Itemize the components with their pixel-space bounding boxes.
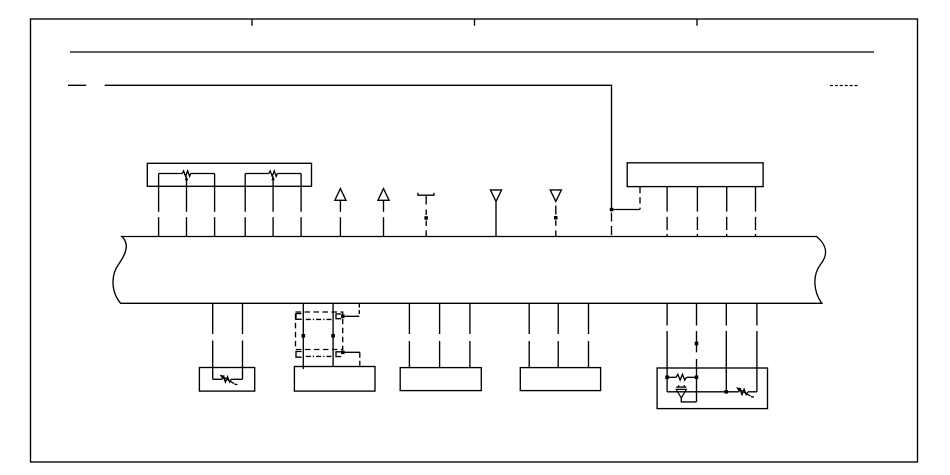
arrow symbol A1 (up triangle) (335, 189, 346, 237)
zener D1 (676, 385, 696, 402)
top border tick 1 (251, 19, 253, 26)
arrow symbol A3 (down triangle) (490, 190, 501, 237)
control unit box (657, 368, 767, 409)
connector box C2 (top right) (627, 163, 763, 187)
actuator M1 box (400, 368, 481, 391)
pin 4 of C2 (726, 187, 728, 237)
pin 3 of C2 (696, 187, 698, 237)
control unit wires (667, 303, 757, 402)
relay K1 dashed housing (296, 312, 343, 350)
wire: second line main run (105, 85, 640, 209)
wire: second line stub (68, 84, 86, 86)
potentiometer P1 body (159, 171, 215, 212)
internal rail (667, 391, 739, 393)
pin 2 of C2 (666, 187, 668, 237)
potentiometer P1 wires to bus (159, 174, 215, 237)
variable resistor R3 (736, 387, 757, 397)
wire: dashed mark right (830, 85, 859, 87)
relay feed wire top (341, 303, 359, 318)
resistor R2 (665, 374, 698, 380)
pin 1 of C2 (dashed) (639, 187, 641, 210)
actuator M2 wires (529, 303, 588, 367)
relay K1 wires (302, 303, 335, 369)
connector box C1 (top left) (147, 163, 311, 186)
relay feed wire bottom (341, 351, 360, 366)
potentiometer P2 body (245, 171, 301, 212)
relay contact arm bottom (306, 355, 333, 357)
terminal T1 (bar symbol) (418, 193, 434, 237)
arrow symbol A4 (down triangle, dashed lead) (550, 190, 561, 237)
thermistor unit wires (213, 303, 243, 379)
arrow symbol A2 (up triangle) (378, 189, 389, 237)
actuator M1 wires (409, 303, 470, 367)
node on rail (725, 390, 729, 394)
pin 5 of C2 (755, 187, 757, 237)
potentiometer P2 wires to bus (245, 174, 301, 237)
relay contact bracket top-right (336, 314, 341, 319)
thermistor box (199, 368, 254, 392)
relay contact arm top (306, 318, 333, 320)
relay contact bracket bottom-left (296, 352, 302, 358)
thermistor R1 (213, 375, 243, 385)
wire: upper bus line (70, 51, 874, 53)
bus / harness band (113, 237, 826, 304)
relay contact bracket bottom-right (336, 352, 341, 357)
actuator M2 box (520, 368, 600, 391)
top border tick 2 (474, 19, 476, 26)
relay contact bracket top-left (296, 314, 302, 320)
top border tick 3 (696, 19, 698, 26)
wire: dashed drop from junction to bus (611, 213, 613, 237)
node: junction dot on corner wire (610, 208, 614, 212)
relay load box (294, 367, 375, 392)
